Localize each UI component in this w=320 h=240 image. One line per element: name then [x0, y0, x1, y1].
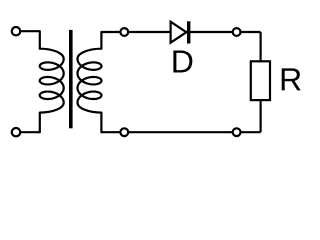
- label D: [173, 50, 192, 72]
- terminal bottom-left: [12, 128, 20, 136]
- label R: [282, 68, 301, 90]
- terminal top-left: [12, 27, 20, 35]
- node bottom A: [120, 128, 128, 136]
- transformer primary winding: [40, 31, 64, 132]
- wire top-left terminal lead: [16, 30, 40, 32]
- diode D cathode bar: [187, 21, 190, 43]
- wire bottom-left terminal lead: [16, 131, 40, 133]
- wire right column bottom: [260, 100, 262, 132]
- transformer core: [69, 30, 73, 128]
- node top B: [233, 28, 241, 36]
- resistor R body: [251, 61, 270, 100]
- diode D triangle: [171, 22, 187, 43]
- node bottom B: [233, 128, 241, 136]
- wire right column top: [260, 32, 262, 61]
- wire bottom rail: [101, 131, 260, 133]
- transformer secondary winding: [78, 32, 102, 132]
- node top A: [120, 28, 128, 36]
- wire top rail: [101, 31, 260, 33]
